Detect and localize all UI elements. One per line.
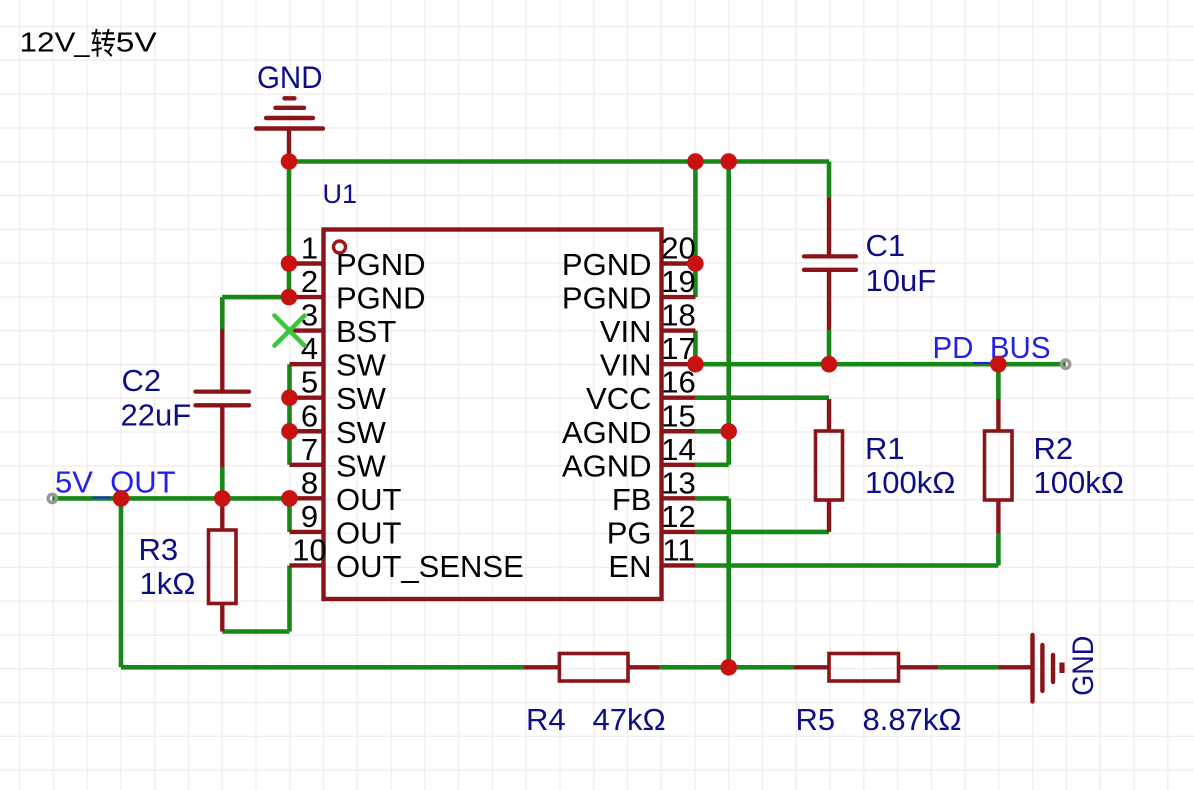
junction pin17 VIN PD_BUS [687,356,704,373]
resistor R3 [209,498,237,631]
svg-text:EN: EN [608,549,651,584]
wire OUT bracket pins 8-9 [287,498,292,532]
wire junction to R5 [729,665,794,670]
wire R3 bottom link [222,629,289,634]
svg-text:PGND: PGND [336,281,426,316]
svg-text:R1: R1 [865,431,905,466]
svg-text:7: 7 [301,432,318,467]
junction pin6 SW [281,423,298,440]
svg-text:100kΩ: 100kΩ [1034,465,1124,500]
wire R5 to GND [938,665,998,670]
wire R2 top [996,364,1001,399]
U1 pin 20 (PGND) [562,231,696,283]
title 12V_转5V [20,27,158,58]
wire GND to U1 pins 1-2 [287,162,292,298]
svg-text:18: 18 [661,298,695,333]
U1 pin 3 (BST) [290,298,397,350]
junction GND top pin20 col [687,153,704,170]
svg-text:SW: SW [336,415,387,450]
junction pin2 PGND [281,289,298,306]
U1 pin 12 (PG) [607,499,696,551]
svg-text:VCC: VCC [586,381,651,416]
svg-text:PGND: PGND [562,247,652,282]
U1 pin 4 (SW) [290,331,387,383]
wire C2 bottom to 5V_OUT [220,467,225,498]
U1 pin 7 (SW) [290,432,387,484]
U1 pin 14 (AGND) [562,432,696,484]
svg-text:PD_BUS: PD_BUS [933,330,1051,365]
power flag GND (top) [256,98,323,161]
junction PD_BUS R2 [990,356,1007,373]
svg-text:C1: C1 [866,228,906,263]
capacitor C1 [804,198,856,331]
svg-text:1: 1 [301,231,318,266]
svg-text:9: 9 [301,499,318,534]
junction 5V_OUT C2 [214,490,231,507]
wire C2 top riser [220,297,225,329]
U1 pin 13 (FB) [612,465,696,516]
svg-text:22uF: 22uF [121,398,192,433]
wire VCC to R1 [695,395,829,400]
svg-text:2: 2 [301,264,318,299]
U1 pin 16 (VCC) [586,365,696,417]
wire OUT_SENSE drop [287,566,292,632]
svg-text:AGND: AGND [562,448,652,483]
wire PD_BUS bus [695,362,1065,367]
resistor R4 [524,654,660,682]
wire AGND drop [726,162,731,465]
svg-text:SW: SW [336,448,387,483]
svg-text:R3: R3 [139,532,179,567]
U1 pin 5 (SW) [290,365,387,417]
no-connect X (pin 3 BST) [275,316,305,346]
wire SW bracket pins 4-7 [287,364,292,465]
wire GND top bus [289,159,829,164]
U1 pin-1 indicator circle [334,241,346,253]
svg-text:OUT: OUT [336,515,402,550]
svg-text:OUT_SENSE: OUT_SENSE [336,549,524,584]
svg-text:R4: R4 [526,702,566,737]
U1 pin 11 (EN) [608,532,695,584]
wire 5V_OUT down branch [119,498,124,667]
svg-text:FB: FB [612,482,652,517]
svg-text:10uF: 10uF [866,263,937,298]
wire pin2 to C2 [222,295,289,300]
svg-text:BST: BST [336,314,396,349]
junction 5V_OUT pin8 [281,490,298,507]
svg-text:VIN: VIN [600,348,652,383]
svg-text:10: 10 [292,532,326,567]
svg-text:8: 8 [301,465,318,500]
svg-text:GND: GND [1067,636,1100,696]
wire R4 to junction [660,665,729,670]
svg-text:SW: SW [336,381,387,416]
U1 pin 10 (OUT_SENSE) [290,532,524,584]
wire VIN tie pins 17-18 [693,331,698,365]
svg-text:4: 4 [301,331,318,366]
svg-text:8.87kΩ: 8.87kΩ [863,702,962,737]
svg-text:6: 6 [301,398,318,433]
junction pin5 SW [281,389,298,406]
resistor R2 [985,399,1013,534]
power flag GND (right) [998,635,1062,702]
wire C1 bottom [827,330,832,364]
svg-text:12: 12 [661,499,695,534]
svg-text:GND: GND [257,59,323,95]
U1 pin 2 (PGND) [290,264,426,316]
junction 5V_OUT branch [113,490,130,507]
terminal pin 5V_OUT [48,494,56,502]
svg-text:R2: R2 [1034,431,1074,466]
junction FB divider [720,659,737,676]
capacitor C2 [196,329,250,467]
svg-text:15: 15 [661,398,695,433]
svg-text:1kΩ: 1kΩ [140,566,196,601]
junction pin15 AGND [720,423,737,440]
wire PGND pins 19-20 drop [693,162,698,298]
U1 pin 19 (PGND) [562,264,696,316]
svg-text:PGND: PGND [336,247,426,282]
resistor R5 [794,654,938,682]
junction GND top AGND col [720,153,737,170]
wire FB horizontal [695,496,728,501]
wire FB drop [726,498,731,667]
svg-text:OUT: OUT [336,482,402,517]
U1 pin 9 (OUT) [290,499,402,551]
wire AGND pin14 [695,462,728,467]
wire 5V_OUT bus [52,496,289,501]
svg-text:AGND: AGND [562,415,652,450]
svg-text:R5: R5 [796,702,836,737]
svg-text:14: 14 [661,432,695,467]
wire bottom to R4 [121,665,524,670]
svg-text:5: 5 [301,365,318,400]
svg-text:U1: U1 [323,179,358,209]
resistor R1 [816,399,843,532]
svg-text:5V: 5V [116,27,158,58]
svg-text:PGND: PGND [562,281,652,316]
svg-text:_: _ [73,27,90,58]
svg-text:100kΩ: 100kΩ [865,465,955,500]
junction PD_BUS C1 [821,356,838,373]
terminal pin PD_BUS [1061,360,1069,368]
svg-text:C2: C2 [122,363,162,398]
wire C1 riser [827,162,832,198]
wire AGND pin15 [695,429,728,434]
junction GND top-left [281,153,298,170]
junction pin20 PGND [687,255,704,272]
U1 pin 8 (OUT) [290,465,402,516]
U1 pin 1 (PGND) [290,231,426,283]
IC U1 body [324,230,662,600]
U1 pin 18 (VIN) [600,298,696,350]
svg-text:12V: 12V [20,27,77,58]
svg-text:47kΩ: 47kΩ [593,702,666,737]
svg-text:PG: PG [607,515,652,550]
svg-text:13: 13 [661,465,695,500]
U1 pin 15 (AGND) [562,398,696,450]
svg-text:SW: SW [336,348,387,383]
U1 pin 6 (SW) [290,398,387,450]
wire R2 bottom riser [996,534,1001,566]
wire EN to R2 bottom [695,563,998,568]
junction pin1 PGND [281,255,298,272]
svg-text:VIN: VIN [600,314,652,349]
wire PG to R1 bottom [695,530,829,535]
svg-text:11: 11 [662,532,694,567]
U1 pin 17 (VIN) [600,331,696,383]
